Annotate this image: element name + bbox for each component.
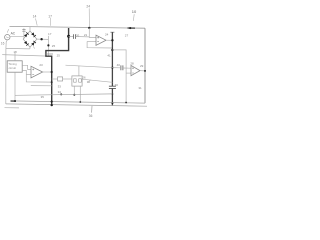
svg-text:25: 25: [57, 54, 61, 58]
svg-text:24: 24: [86, 5, 90, 9]
svg-text:circuit: circuit: [9, 66, 17, 70]
capacitor C1: [23, 28, 25, 39]
svg-text:41: 41: [107, 53, 111, 57]
node junction: [47, 44, 49, 46]
svg-text:36: 36: [89, 114, 93, 118]
svg-text:28: 28: [130, 61, 134, 65]
node junction: [40, 38, 42, 40]
svg-text:24: 24: [105, 32, 109, 36]
node rail junction dark segment: [128, 27, 136, 29]
wire bottom bus L1: [15, 94, 112, 95]
wire U1 output: [43, 71, 52, 73]
wire block top pin: [14, 52, 16, 60]
node junctions on branch: [111, 39, 113, 41]
wire bridge bottom return: [6, 47, 30, 50]
wire bridge bottom pin: [29, 47, 31, 49]
wire bridge dc output: [37, 38, 49, 40]
svg-text:23: 23: [39, 63, 43, 67]
svg-text:10: 10: [132, 9, 137, 14]
svg-text:17: 17: [48, 14, 52, 18]
op-amp U3: [131, 65, 140, 75]
wire U1 feedback: [26, 74, 51, 82]
wire top supply rail: [10, 26, 146, 28]
wire Q1 right lead: [82, 79, 112, 82]
svg-text:29: 29: [140, 64, 144, 68]
svg-text:27: 27: [125, 33, 129, 37]
wire U3 minus input: [126, 72, 131, 74]
svg-text:26: 26: [82, 75, 86, 79]
capacitor C2 plate: [45, 53, 53, 55]
wire block out2: [22, 70, 31, 74]
wire bottom bus L3: [6, 104, 147, 106]
svg-text:40: 40: [117, 63, 121, 67]
wire ac bottom lead: [6, 40, 7, 49]
wire thick filter branch: [46, 28, 69, 105]
svg-text:30: 30: [115, 83, 119, 87]
diode bridge D1-D4: [23, 31, 37, 47]
svg-text:33: 33: [58, 85, 62, 89]
wire ac to bridge input: [10, 35, 24, 37]
svg-text:25: 25: [52, 44, 56, 48]
wire Q1 bottom leads: [73, 86, 75, 95]
wire lamp feed: [66, 65, 113, 68]
wire to U3 inverting: [112, 50, 126, 103]
node thick drop crossings: [51, 101, 53, 103]
wire left neutral drop: [5, 48, 7, 104]
wire right supply rail: [144, 28, 146, 103]
wire bridge top to rail: [29, 27, 31, 31]
capacitor C4: [109, 85, 116, 87]
wire bottom stub: [5, 107, 20, 109]
svg-text:14: 14: [33, 15, 37, 19]
wire node 17 vertical: [47, 36, 49, 56]
triac Q1 block: [78, 66, 80, 76]
wire U1 bias: [31, 85, 52, 87]
wire mid rail: [2, 55, 48, 57]
resistor R1: [52, 78, 58, 80]
timing circuit block: [7, 61, 22, 72]
node junction big: [67, 35, 70, 38]
wire block out1: [22, 65, 31, 69]
wire U2 output: [106, 39, 112, 41]
wire bottom bus L2: [11, 101, 146, 103]
op-amp U2: [88, 27, 90, 29]
svg-text:35: 35: [41, 95, 45, 99]
wire U3 output: [140, 70, 145, 72]
svg-text:34: 34: [58, 90, 62, 94]
svg-text:16: 16: [1, 41, 5, 45]
capacitor C3 coupling: [69, 35, 74, 37]
tick near bridge bottom: [33, 46, 34, 48]
svg-text:AC: AC: [11, 32, 16, 36]
op-amp U1: [31, 66, 43, 78]
svg-text:31: 31: [138, 86, 142, 90]
capacitor C5: [112, 67, 120, 69]
label 36 ground leader: [91, 106, 93, 113]
svg-text:17: 17: [48, 32, 52, 36]
wire block bottom pin: [14, 72, 16, 101]
svg-text:21: 21: [84, 33, 88, 37]
wire thick right branch: [110, 31, 114, 33]
